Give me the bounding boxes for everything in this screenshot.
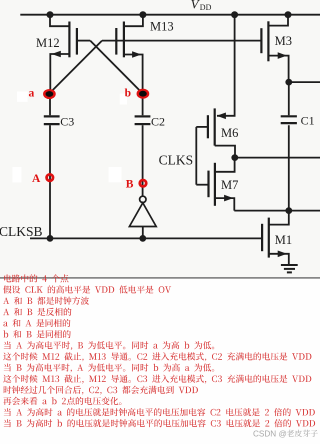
svg-text:DD: DD: [200, 3, 212, 12]
wire M12 source to node a: [50, 54, 69, 94]
wire M13 source to node b: [124, 55, 143, 95]
svg-text:M6: M6: [221, 126, 238, 140]
wire CLKSB line: [30, 237, 262, 239]
svg-text:B: B: [126, 179, 134, 191]
svg-text:C2: C2: [151, 114, 165, 128]
capacitor C3 plates: [44, 115, 60, 117]
junction dot rail-M6: [231, 11, 238, 18]
junction dot C1/bottom rail: [285, 207, 292, 214]
wire M3 drain from rail: [268, 15, 288, 26]
wire M3 source to output node: [268, 56, 288, 83]
capacitor C2 plates: [135, 115, 151, 117]
wire cross-couple M12 gate to node b: [90, 41, 142, 93]
red note text line 3: [3, 297, 89, 305]
wire M13 drain from rail: [124, 15, 143, 27]
watermark CSDN @老皮芽子: [253, 429, 318, 438]
red note text line 6: [3, 330, 71, 338]
transistor M1 channel and gate: [268, 218, 270, 258]
wire C1 to bottom rail: [288, 125, 290, 210]
junction dot inverter-CLKSB: [139, 235, 146, 242]
svg-text:M3: M3: [275, 34, 292, 48]
wire C2 to inverter bubble: [142, 125, 144, 196]
red note text line 8: [3, 352, 311, 361]
arrow M13 source: [132, 51, 141, 58]
junction dot M6/M7 output: [231, 154, 238, 161]
junction dot rail-M12: [47, 11, 54, 18]
svg-text:a: a: [29, 87, 35, 99]
wire VDD to M6 source: [217, 15, 235, 116]
red note text line 10: [3, 375, 311, 384]
svg-text:M13: M13: [150, 20, 174, 34]
wire output node to C1: [288, 82, 290, 115]
red note text line 1: [4, 274, 68, 282]
junction dot M3/C1 output: [285, 79, 292, 86]
background circuit area: [0, 0, 320, 278]
red note text line 11: [4, 386, 198, 395]
transistor M7 channel and gate: [214, 163, 216, 206]
wire VDD rail: [20, 14, 320, 16]
wire node b to C2: [142, 94, 144, 115]
capacitor C1 plates: [281, 115, 297, 117]
separator line: [0, 277, 320, 279]
wire M6 gate stub: [196, 126, 208, 128]
red note text line 9: [4, 363, 214, 372]
arrow M6 source: [217, 113, 226, 120]
svg-text:CSDN @: CSDN @: [253, 429, 287, 438]
wire gate line M13/M3: [102, 40, 261, 42]
arrow M12 source: [52, 51, 61, 58]
inverter U1 triangle: [129, 203, 156, 227]
arrow M3 source: [278, 52, 287, 59]
node b marker: [138, 90, 148, 97]
wire M7 source to bottom rail: [215, 198, 234, 211]
wire clock output mid: [235, 157, 320, 159]
svg-text:b: b: [125, 88, 131, 100]
transistor M12 channel and gate: [68, 22, 70, 58]
wire output top right: [289, 81, 320, 83]
arrow M1 source: [278, 251, 287, 258]
wire inverter output to CLKSB line: [142, 227, 144, 239]
red note text line 13: [4, 408, 315, 416]
wire M12 gate stub: [77, 40, 90, 42]
red note text line 5: [3, 319, 70, 327]
junction dot rail-M13: [139, 11, 146, 18]
wire C3 to CLKSB node: [49, 125, 51, 238]
wire M1 drain: [269, 211, 289, 225]
svg-text:CLKSB: CLKSB: [0, 224, 43, 239]
node a marker: [44, 90, 54, 97]
wire M7 gate stub: [196, 184, 208, 186]
red note text line 4: [3, 308, 71, 316]
junction dot rail-M3: [285, 11, 292, 18]
node A marker: [47, 174, 53, 180]
junction dot CLKSB left: [47, 235, 54, 242]
wire bottom output rail: [234, 210, 320, 212]
wire M6 drain to output node: [215, 146, 235, 158]
svg-text:C1: C1: [301, 114, 315, 128]
wire M12 drain from rail: [50, 15, 69, 27]
transistor M13 channel and gate: [123, 22, 125, 58]
transistor M3 channel and gate: [267, 21, 269, 61]
inverter U1 bubble: [140, 196, 146, 202]
svg-text:M12: M12: [36, 36, 60, 50]
red note text line 2: [3, 285, 171, 293]
wire M1 source to ground: [269, 254, 289, 265]
svg-text:A: A: [32, 173, 41, 185]
wire gate link M6-M7 (CLKS): [195, 127, 197, 185]
wire M7 drain to output node: [215, 158, 235, 172]
transistor M6 channel and gate: [214, 108, 216, 145]
red note text line 7: [4, 341, 214, 350]
svg-text:M7: M7: [221, 178, 238, 192]
red note text line 14: [4, 419, 315, 427]
svg-text:CLKS: CLKS: [159, 152, 194, 167]
wire node a to C3: [49, 94, 51, 115]
svg-text:M1: M1: [275, 233, 292, 247]
svg-text:C3: C3: [60, 114, 74, 128]
ground symbol: [281, 265, 298, 272]
wire cross-couple gate line to node a: [50, 41, 102, 93]
arrow M7 source: [224, 195, 233, 202]
red note text line 12: [3, 397, 121, 405]
node B marker: [140, 180, 146, 186]
selection highlight boxes: [17, 92, 28, 102]
